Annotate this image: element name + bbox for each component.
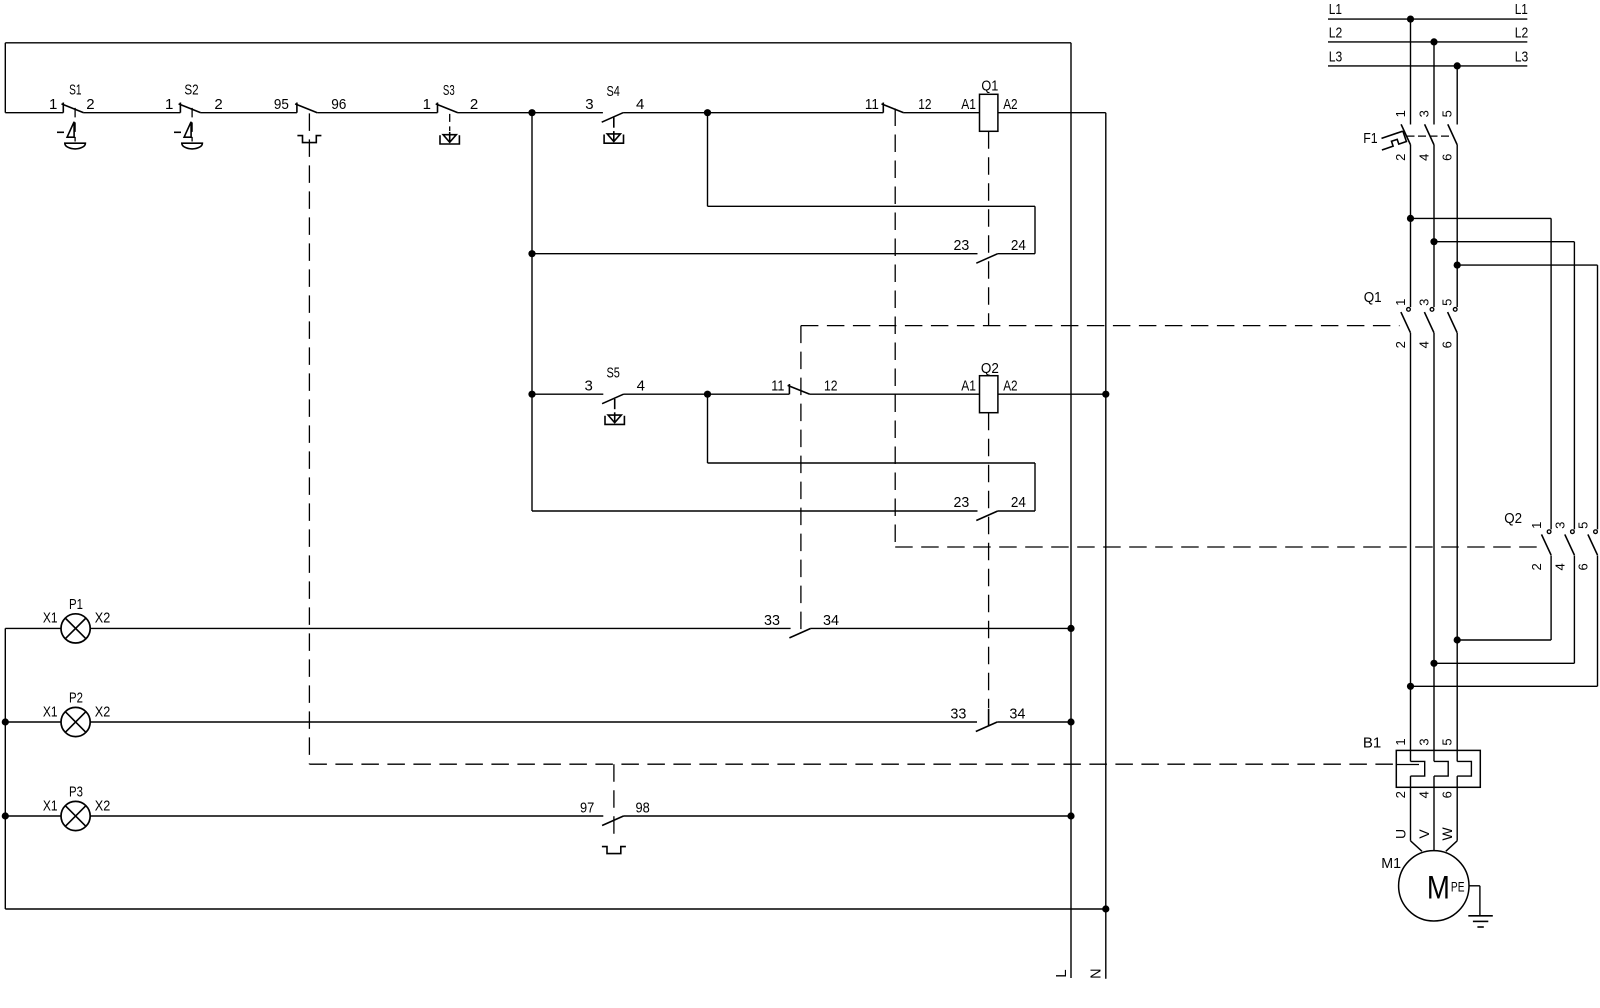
svg-text:B1: B1 — [1363, 734, 1381, 751]
S1 actuator link — [74, 108, 76, 142]
node junction P1 L — [1067, 625, 1074, 632]
svg-text:S5: S5 — [607, 365, 620, 382]
wire Q2 out c — [1411, 555, 1598, 686]
motor M1 — [1381, 851, 1469, 921]
F1 pin 5 — [1440, 110, 1455, 117]
svg-text:5: 5 — [1440, 110, 1455, 117]
svg-text:6: 6 — [1440, 154, 1455, 161]
contact Q1 23-24 (NO holding) — [954, 237, 1026, 263]
svg-text:A2: A2 — [1003, 377, 1017, 394]
link Q1 coil to 23-24 dashed — [988, 131, 990, 325]
svg-text:34: 34 — [823, 612, 839, 629]
wire tap Q2 c — [1457, 265, 1597, 529]
svg-text:A1: A1 — [961, 377, 976, 394]
node N label — [1087, 968, 1104, 979]
F1 pin 1 — [1393, 110, 1408, 117]
contactor Q1 main pole3 — [1448, 308, 1458, 333]
breaker F1 lever — [1382, 131, 1403, 138]
contactor Q1 main pole2 — [1424, 308, 1434, 333]
contactor Q2 label — [1504, 510, 1522, 527]
svg-text:4: 4 — [1417, 154, 1432, 161]
svg-text:N: N — [1087, 968, 1104, 979]
breaker F1 thermal element — [1382, 131, 1407, 150]
wire motor feed V — [1433, 787, 1435, 850]
svg-text:98: 98 — [636, 800, 650, 817]
wire P1 left — [5, 627, 61, 629]
contactor Q2 main pole1 — [1542, 530, 1552, 555]
S4 pushbutton actuator — [604, 131, 623, 143]
svg-text:L: L — [1053, 969, 1070, 977]
node L label — [1053, 969, 1070, 977]
contactor Q1 main pole1 — [1401, 308, 1411, 333]
wire rung1 96-S3 — [317, 112, 437, 114]
wire rung1 S2-95 — [201, 112, 297, 114]
Q2 33-34 link tick — [988, 709, 990, 727]
node junction tap Q2 a — [1407, 215, 1414, 222]
Q2 pin 6 — [1576, 563, 1591, 570]
wire P3 mid — [90, 815, 603, 817]
svg-text:X1: X1 — [43, 610, 58, 627]
svg-text:A2: A2 — [1003, 96, 1017, 113]
Q1 pin 1 — [1393, 299, 1408, 306]
node junction P2 L — [1067, 718, 1074, 725]
switch S3 (NC pushbutton) — [423, 82, 479, 113]
svg-text:96: 96 — [331, 96, 346, 113]
svg-text:3: 3 — [1417, 738, 1432, 745]
svg-text:4: 4 — [1552, 563, 1567, 570]
node junction crossover c — [1407, 683, 1414, 690]
svg-text:3: 3 — [1552, 522, 1567, 529]
svg-text:L2: L2 — [1515, 25, 1529, 42]
wire L bus top horizontal — [5, 42, 1071, 44]
B1 pin 4 — [1417, 791, 1432, 798]
breaker F1 pole1 — [1401, 124, 1410, 145]
B1 pin 1 — [1393, 738, 1408, 745]
wire holding1 right drop — [1034, 206, 1036, 253]
node junction P3 L — [1067, 812, 1074, 819]
wire holding2 drop — [707, 394, 709, 463]
F1 pin 2 — [1393, 154, 1408, 161]
svg-text:S2: S2 — [184, 82, 198, 99]
svg-text:34: 34 — [1009, 706, 1025, 723]
svg-text:L2: L2 — [1329, 25, 1343, 42]
wire rung2 A2-N — [998, 393, 1106, 395]
svg-text:6: 6 — [1576, 563, 1591, 570]
link Q2 11-12 vertical dashed — [894, 109, 896, 548]
svg-text:1: 1 — [423, 96, 431, 113]
B1 pin 5 — [1440, 738, 1455, 745]
wire tap Q2 a — [1411, 218, 1552, 529]
svg-text:2: 2 — [214, 96, 222, 113]
node junction rung2 N — [1102, 391, 1109, 398]
contactor Q2 main pole3 — [1588, 530, 1598, 555]
wire motor PE — [1469, 886, 1480, 916]
wire column3 F1-Q1 — [1456, 145, 1458, 307]
wire column3 L3-F1 — [1456, 66, 1458, 125]
svg-text:X1: X1 — [43, 797, 58, 814]
svg-text:F1: F1 — [1363, 130, 1377, 147]
contact Q1 33-34 (NO lamp P1) — [764, 612, 839, 638]
svg-text:S4: S4 — [607, 83, 620, 100]
wire column1 L1-F1 — [1410, 19, 1412, 124]
svg-text:L3: L3 — [1329, 49, 1343, 66]
svg-text:5: 5 — [1440, 738, 1455, 745]
svg-text:Q2: Q2 — [981, 360, 999, 377]
wire vertical line L — [1070, 43, 1072, 978]
svg-text:1: 1 — [165, 96, 173, 113]
svg-text:24: 24 — [1011, 237, 1026, 254]
svg-text:95: 95 — [274, 96, 289, 113]
svg-text:W: W — [1439, 827, 1455, 841]
coil Q1 — [961, 78, 1017, 132]
S2 mushroom actuator — [174, 122, 202, 149]
net L3 rail — [1328, 49, 1528, 66]
wire rung1 S4-junction — [623, 112, 883, 114]
wire motor feed U — [1411, 787, 1423, 851]
svg-text:4: 4 — [1417, 341, 1432, 348]
Q2 pin 1 — [1529, 522, 1544, 529]
svg-text:11: 11 — [771, 377, 784, 394]
svg-text:X1: X1 — [43, 703, 58, 720]
svg-text:L1: L1 — [1329, 1, 1342, 18]
motor terminal U — [1393, 829, 1409, 839]
ground symbol — [1468, 916, 1493, 927]
link Q1 horizontal dashed — [801, 325, 1400, 327]
svg-text:24: 24 — [1011, 494, 1026, 511]
switch S4 (NO start pushbutton) — [585, 83, 644, 122]
lamp P1 — [43, 596, 110, 643]
contactor Q2 main pole2 — [1565, 530, 1575, 555]
node junction x532 rung2 — [528, 391, 535, 398]
overload B1 heater3 — [1457, 750, 1471, 787]
svg-text:X2: X2 — [95, 610, 111, 627]
wire P2 left — [5, 721, 61, 723]
wire P3 right — [624, 815, 1072, 817]
breaker F1 pole2 — [1425, 124, 1434, 145]
motor terminal W — [1439, 827, 1455, 841]
wire holding2 right drop — [1034, 463, 1036, 511]
wire rung1 left — [5, 112, 63, 114]
node junction L1 tap — [1407, 16, 1414, 23]
svg-text:2: 2 — [1529, 563, 1544, 570]
S1 mushroom actuator — [57, 122, 85, 149]
Q1 pin 5 — [1440, 299, 1455, 306]
node junction bottom N — [1102, 905, 1109, 912]
svg-text:Q1: Q1 — [1364, 289, 1382, 306]
Q1 pin 4 — [1417, 341, 1432, 348]
wire column1 F1-Q1 — [1410, 145, 1412, 307]
svg-text:2: 2 — [86, 96, 94, 113]
switch S1 (NC e-stop) — [49, 82, 95, 113]
svg-text:3: 3 — [585, 96, 593, 113]
overload B1 heater2 — [1434, 750, 1448, 787]
breaker F1 link dashed — [1407, 135, 1453, 137]
contact F1 97-98 (NO lamp P3) — [580, 800, 650, 826]
svg-text:97: 97 — [580, 800, 594, 817]
wire branch x532 to holding2 — [531, 394, 533, 511]
svg-text:S3: S3 — [443, 82, 455, 99]
S4 fixed-contact tick — [613, 117, 615, 127]
node junction lamp bus P3 — [2, 812, 9, 819]
svg-text:2: 2 — [470, 96, 478, 113]
svg-text:Q1: Q1 — [981, 78, 998, 95]
link Q1 vertical dashed to 11-12 and 33-34 — [800, 326, 802, 633]
link F1 horizontal dashed to B1 — [309, 763, 1396, 765]
svg-text:4: 4 — [1417, 791, 1432, 798]
S5 pushbutton actuator — [605, 412, 624, 424]
coil Q2 — [961, 360, 1017, 413]
S2 actuator link — [191, 108, 193, 142]
wire Q2 out b — [1434, 555, 1574, 663]
wire P1 mid — [90, 627, 790, 629]
node junction S5 output — [704, 391, 711, 398]
svg-text:23: 23 — [954, 494, 970, 511]
svg-text:X2: X2 — [95, 797, 111, 814]
wire column3 Q1-B1 — [1456, 333, 1458, 750]
wire P3 left — [5, 815, 61, 817]
wire tap Q2 b — [1434, 242, 1574, 530]
svg-text:11: 11 — [865, 96, 879, 113]
svg-text:M1: M1 — [1381, 855, 1401, 872]
node junction crossover a — [1454, 636, 1461, 643]
wire branch vertical x532 upper — [531, 113, 533, 254]
switch S2 (NC e-stop) — [165, 82, 223, 113]
node junction tap Q2 c — [1454, 262, 1461, 269]
wire column1 Q1-B1 — [1410, 333, 1412, 750]
wire P2 mid — [90, 721, 977, 723]
svg-text:1: 1 — [49, 96, 57, 113]
link Q2 horizontal dashed — [895, 546, 1541, 548]
wire rung1 S1-S2 — [84, 112, 181, 114]
wire holding1 lower — [532, 253, 978, 255]
svg-text:1: 1 — [1529, 522, 1544, 529]
svg-text:23: 23 — [954, 237, 970, 254]
svg-text:A1: A1 — [961, 96, 976, 113]
svg-text:2: 2 — [1393, 154, 1408, 161]
wire vertical line N — [1105, 113, 1107, 979]
wire rung1 A2-N — [998, 112, 1106, 114]
node junction crossover b — [1430, 660, 1437, 667]
wire P1 right — [811, 627, 1071, 629]
node junction L3 tap — [1454, 62, 1461, 69]
svg-text:6: 6 — [1440, 791, 1455, 798]
net L1 rail — [1328, 1, 1528, 19]
contact Q2 23-24 (NO holding) — [954, 494, 1026, 520]
svg-text:12: 12 — [824, 377, 838, 394]
lamp P3 — [43, 783, 110, 830]
F1 pin 4 — [1417, 154, 1432, 161]
net L2 rail — [1328, 25, 1528, 42]
contact Q1 11-12 (NC interlock rung2) — [771, 377, 837, 394]
svg-text:1: 1 — [1393, 110, 1408, 117]
wire holding1 upper — [708, 205, 1036, 207]
motor terminal V — [1416, 829, 1432, 839]
svg-text:1: 1 — [1393, 299, 1408, 306]
svg-text:S1: S1 — [69, 82, 81, 99]
svg-text:2: 2 — [1393, 791, 1408, 798]
Q1 pin 2 — [1393, 341, 1408, 348]
F1 97-98 release symbol — [602, 847, 626, 854]
svg-text:1: 1 — [1393, 738, 1408, 745]
wire rung2 12-A1 — [810, 393, 980, 395]
contact Q2 33-34 (NO lamp P2) — [950, 706, 1025, 732]
svg-text:L3: L3 — [1515, 49, 1529, 66]
wire rung2 S5-11 — [624, 393, 790, 395]
contactor Q1 label — [1364, 289, 1382, 306]
wire holding1 drop — [707, 113, 709, 207]
B1 pin 6 — [1440, 791, 1455, 798]
link Q2 coil to 23-24 and 33-34 dashed — [988, 413, 990, 708]
svg-text:3: 3 — [585, 377, 593, 394]
svg-text:2: 2 — [1393, 341, 1408, 348]
switch S5 (NO start pushbutton) — [585, 365, 645, 404]
svg-text:3: 3 — [1417, 110, 1432, 117]
wire L bus left vertical — [4, 43, 6, 113]
wire 24 to corner 2 — [998, 510, 1035, 512]
svg-text:L1: L1 — [1515, 1, 1528, 18]
svg-text:33: 33 — [764, 612, 780, 629]
B1 pin 3 — [1417, 738, 1432, 745]
S3 pushbutton actuator — [440, 132, 459, 144]
overload B1 link line — [1396, 764, 1419, 766]
wire rung1 12-A1 — [904, 112, 980, 114]
overload B1 heater1 — [1411, 750, 1425, 787]
Q2 pin 2 — [1529, 563, 1544, 570]
F1 release symbol — [297, 136, 321, 143]
B1 pin 2 — [1393, 791, 1408, 798]
overload B1 box — [1396, 750, 1480, 787]
svg-text:P2: P2 — [69, 689, 83, 706]
wire lamp bus vertical — [4, 628, 6, 909]
Q2 pin 4 — [1552, 563, 1567, 570]
svg-text:4: 4 — [637, 377, 645, 394]
Q2 pin 3 — [1552, 522, 1567, 529]
svg-text:P1: P1 — [69, 596, 83, 613]
svg-text:4: 4 — [636, 96, 644, 113]
Q2 pin 5 — [1576, 522, 1591, 529]
svg-text:X2: X2 — [95, 703, 111, 720]
svg-text:3: 3 — [1417, 299, 1432, 306]
wire column2 F1-Q1 — [1433, 145, 1435, 307]
wire holding2 upper — [708, 462, 1036, 464]
svg-text:PE: PE — [1451, 879, 1465, 895]
wire column2 Q1-B1 — [1433, 333, 1435, 750]
svg-text:U: U — [1393, 829, 1409, 839]
svg-text:5: 5 — [1576, 522, 1591, 529]
S5 fixed-contact tick — [614, 399, 616, 409]
breaker F1 pole3 — [1448, 124, 1457, 145]
link F1 97-98 vertical dashed — [613, 764, 615, 840]
node junction S4 output — [704, 109, 711, 116]
wire rung2 left — [532, 393, 603, 395]
wire rung1 S3-S4 — [458, 112, 603, 114]
Q1 pin 3 — [1417, 299, 1432, 306]
node junction tap Q2 b — [1430, 238, 1437, 245]
wire P2 right — [997, 721, 1071, 723]
Q1 pin 6 — [1440, 341, 1455, 348]
S3 actuator link — [449, 114, 451, 131]
wire column2 L2-F1 — [1433, 42, 1435, 125]
wire motor feed W — [1446, 787, 1457, 851]
svg-text:Q2: Q2 — [1504, 510, 1522, 527]
contact F1 95-96 (NC) — [274, 96, 347, 113]
svg-text:12: 12 — [918, 96, 931, 113]
lamp P2 — [43, 689, 110, 736]
node junction S3 output — [528, 109, 535, 116]
overload B1 label — [1363, 734, 1381, 751]
F1 pin 6 — [1440, 154, 1455, 161]
wire 24 to corner — [998, 253, 1035, 255]
svg-text:V: V — [1416, 829, 1432, 839]
node junction L2 tap — [1430, 38, 1437, 45]
wire bottom N return — [5, 908, 1106, 910]
link F1 95-96 vertical dashed — [308, 113, 310, 764]
svg-text:P3: P3 — [69, 783, 83, 800]
node junction lamp bus P2 — [2, 718, 9, 725]
svg-text:M: M — [1427, 870, 1450, 906]
wire branch x532 mid — [531, 254, 533, 395]
wire Q2 out a — [1457, 555, 1551, 640]
svg-text:6: 6 — [1440, 341, 1455, 348]
node junction x532 lower holding1 — [528, 250, 535, 257]
F1 pin 3 — [1417, 110, 1432, 117]
svg-text:5: 5 — [1440, 299, 1455, 306]
contact Q2 11-12 (NC interlock) — [865, 96, 932, 113]
wire holding2 lower — [532, 510, 978, 512]
breaker F1 label — [1363, 130, 1377, 147]
svg-text:33: 33 — [950, 706, 966, 723]
